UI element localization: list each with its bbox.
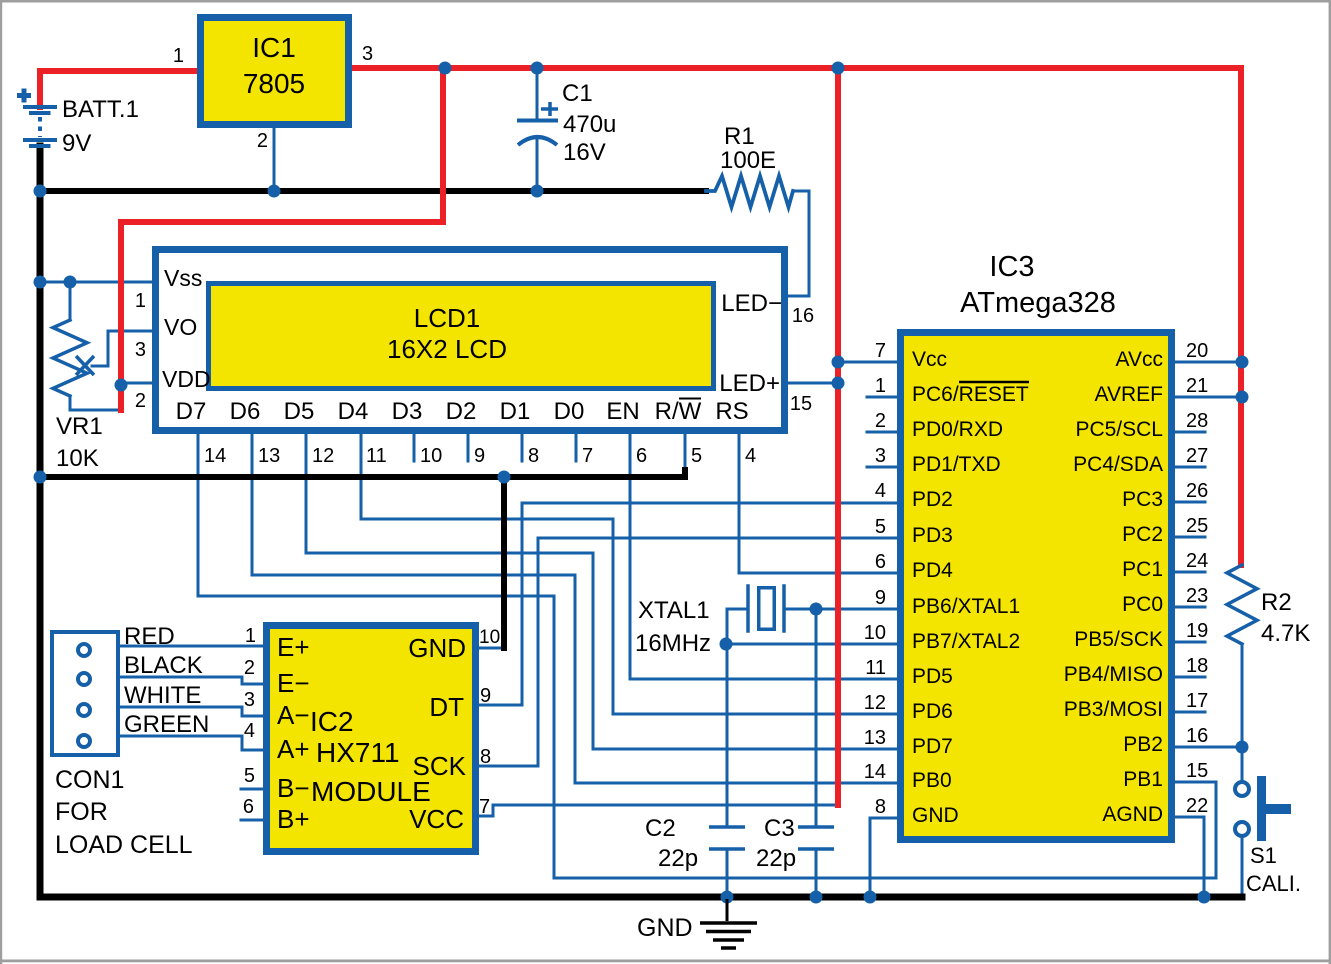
junction ground at battery [34, 185, 47, 198]
svg-text:S1: S1 [1250, 843, 1277, 868]
crystal XTAL1 right plate [782, 586, 786, 631]
wire CON1 BLACK to HX711 E- [120, 677, 264, 684]
wire ATmega PD0 pin 2 stub [867, 431, 897, 434]
svg-text:LOAD CELL: LOAD CELL [55, 831, 193, 859]
svg-text:2: 2 [244, 657, 255, 679]
svg-text:1: 1 [135, 290, 146, 312]
svg-text:24: 24 [1186, 550, 1208, 572]
svg-text:17: 17 [1186, 690, 1208, 712]
wire LCD D4 pin 11 to ATmega PD6 [361, 433, 897, 714]
wire ground left rail and bottom rail (black) [40, 146, 1242, 897]
svg-text:3: 3 [135, 339, 146, 361]
svg-text:7: 7 [875, 340, 886, 362]
svg-text:8: 8 [875, 796, 886, 818]
svg-text:BATT.1: BATT.1 [62, 96, 139, 123]
wire R2 bottom lead [1241, 644, 1244, 747]
wire VR1 bottom lead to 5V [70, 396, 121, 410]
wire ground to LCD R/W pin 5 (black) [40, 470, 685, 477]
svg-text:4: 4 [244, 720, 255, 742]
junction ground at C2 [721, 891, 734, 904]
svg-text:10: 10 [420, 445, 442, 467]
wire ATmega PB2 pin 16 to R2/S1 [1176, 746, 1242, 749]
CON1 circle 4 [78, 735, 90, 747]
battery BATT.1 dotted middle [38, 117, 42, 137]
wire LCD D1 pin 8 stub [521, 433, 524, 461]
svg-text:PD3: PD3 [912, 524, 953, 547]
svg-text:E−: E− [277, 668, 310, 698]
svg-text:E+: E+ [277, 632, 310, 662]
svg-text:18: 18 [1186, 655, 1208, 677]
junction 5V at LCD VDD [115, 379, 128, 392]
svg-text:A−: A− [277, 700, 310, 730]
svg-text:GND: GND [637, 914, 693, 942]
svg-text:7: 7 [582, 445, 593, 467]
svg-text:CALI.: CALI. [1246, 871, 1301, 896]
svg-text:6: 6 [636, 445, 647, 467]
switch S1 actuator [1257, 776, 1291, 841]
svg-text:R/W: R/W [655, 398, 702, 425]
junction crystal right / C3 [810, 603, 823, 616]
potentiometer VR1 wiper arrow [76, 356, 94, 375]
wire ATmega AVREF pin 21 to 5V [1176, 396, 1242, 399]
svg-text:LED+: LED+ [719, 370, 780, 397]
svg-text:1: 1 [875, 375, 886, 397]
svg-text:D7: D7 [176, 398, 207, 425]
svg-text:AVcc: AVcc [1116, 348, 1163, 371]
wire 5V branch down to LCD VDD (red) [121, 68, 443, 410]
svg-text:C2: C2 [645, 815, 676, 842]
wire ATmega GND pin 8 to ground [870, 818, 897, 897]
svg-text:8: 8 [480, 746, 491, 768]
svg-text:15: 15 [790, 393, 812, 415]
wire HX711 B+ pin 6 stub [241, 819, 264, 822]
svg-text:4: 4 [875, 480, 886, 502]
module IC2 HX711 body [267, 626, 476, 852]
svg-text:PB4/MISO: PB4/MISO [1064, 663, 1163, 686]
svg-text:VDD: VDD [162, 366, 211, 392]
junction ground at ATmega AGND [1198, 891, 1211, 904]
svg-text:6: 6 [875, 551, 886, 573]
potentiometer VR1 zigzag [53, 320, 87, 396]
wire HX711 VCC pin 7 to 5V [479, 805, 838, 816]
svg-text:20: 20 [1186, 340, 1208, 362]
svg-text:PC0: PC0 [1122, 593, 1163, 616]
svg-text:ATmega328: ATmega328 [960, 287, 1116, 319]
svg-text:26: 26 [1186, 480, 1208, 502]
svg-text:4: 4 [745, 445, 756, 467]
wire CON1 GREEN to HX711 A+ [120, 736, 264, 750]
crystal XTAL1 body [759, 588, 775, 630]
svg-text:25: 25 [1186, 515, 1208, 537]
wire LCD D3 pin 10 stub [413, 433, 416, 461]
svg-text:VCC: VCC [409, 804, 464, 834]
svg-text:16X2 LCD: 16X2 LCD [387, 334, 507, 364]
svg-text:16MHz: 16MHz [635, 630, 711, 657]
junction ground at C3 [810, 891, 823, 904]
svg-text:D6: D6 [230, 398, 261, 425]
wire 5V vertical to HX711 VCC (red) [835, 68, 841, 805]
battery BATT.1 positive plate [25, 105, 55, 109]
svg-text:22: 22 [1186, 795, 1208, 817]
wire ATmega PC0 pin 23 stub [1176, 606, 1205, 609]
IC3 pin label PC6/RESET [912, 382, 1029, 406]
wire VR1 top lead [69, 282, 72, 320]
svg-text:B+: B+ [277, 804, 310, 834]
svg-text:IC3: IC3 [989, 251, 1034, 283]
junction ground at R/W row [34, 471, 47, 484]
junction ground at IC1 pin 2 [268, 185, 281, 198]
svg-text:IC2: IC2 [310, 706, 354, 737]
page border right [1329, 0, 1331, 964]
switch S1 bottom contact [1235, 822, 1249, 836]
svg-text:BLACK: BLACK [124, 652, 203, 679]
junction 5V at HX711 VCC branch [832, 62, 845, 75]
svg-text:14: 14 [864, 761, 886, 783]
svg-text:5: 5 [244, 765, 255, 787]
svg-text:VR1: VR1 [56, 413, 103, 440]
svg-text:PD0/RXD: PD0/RXD [912, 418, 1003, 441]
wire XTAL1 right terminal to ATmega PB6 pin 9 [784, 608, 897, 611]
wire C3 top lead [815, 609, 818, 827]
junction VR1 top / Vss wire [64, 276, 77, 289]
svg-text:PB6/XTAL1: PB6/XTAL1 [912, 595, 1020, 618]
junction ground at C1 [531, 185, 544, 198]
wire ATmega PB3 pin 17 stub [1176, 711, 1205, 714]
junction 5V at LED+ [832, 377, 845, 390]
wire ATmega PC4 pin 27 stub [1176, 466, 1205, 469]
svg-text:8: 8 [528, 445, 539, 467]
wire ATmega PC3 pin 26 stub [1176, 501, 1205, 504]
svg-text:1: 1 [173, 45, 184, 67]
svg-text:15: 15 [1186, 760, 1208, 782]
svg-text:B−: B− [277, 773, 310, 803]
svg-text:GND: GND [912, 804, 959, 827]
LCD pin label R/W [655, 398, 702, 425]
svg-text:AVREF: AVREF [1095, 383, 1163, 406]
svg-text:D0: D0 [554, 398, 585, 425]
CON1 circle 2 [78, 673, 90, 685]
svg-text:PC5/SCL: PC5/SCL [1075, 418, 1163, 441]
svg-text:11: 11 [865, 657, 886, 679]
wire S1 top lead [1241, 747, 1244, 781]
wire ATmega Vcc pin 7 to 5V [838, 361, 897, 364]
wire LCD Vss pin 1 to ground rail [40, 281, 152, 284]
CON1 circle 1 [78, 644, 90, 656]
wire LCD D6 pin 13 to ATmega PB0 [252, 433, 897, 783]
svg-text:7805: 7805 [243, 68, 305, 99]
wire ATmega PC5 pin 28 stub [1176, 431, 1205, 434]
junction ground at ATmega GND [864, 891, 877, 904]
svg-text:PD6: PD6 [912, 700, 953, 723]
wire 9V from BATT.1 to IC1 pin 1 (red) [40, 71, 197, 107]
wire LCD VO pin 3 to VR1 wiper [92, 331, 152, 366]
svg-text:PB0: PB0 [912, 769, 952, 792]
svg-text:LCD1: LCD1 [414, 303, 480, 333]
wire LCD D7 pin 14 to ATmega PB1 (via bottom route) [198, 433, 1216, 878]
wire LCD D2 pin 9 stub [467, 433, 470, 461]
svg-text:10K: 10K [56, 445, 99, 472]
svg-text:D2: D2 [446, 398, 477, 425]
svg-text:Vcc: Vcc [912, 348, 947, 371]
svg-text:PC6/RESET: PC6/RESET [912, 383, 1029, 406]
svg-text:LED−: LED− [721, 290, 782, 317]
svg-text:RS: RS [715, 398, 748, 425]
svg-text:PB7/XTAL2: PB7/XTAL2 [912, 630, 1020, 653]
wire C1 top lead [536, 68, 539, 119]
svg-text:IC1: IC1 [252, 32, 296, 63]
page border top [0, 0, 1331, 3]
wire LCD D0 pin 7 stub [575, 433, 578, 461]
svg-text:D4: D4 [338, 398, 369, 425]
wire ATmega PB4 pin 18 stub [1176, 676, 1205, 679]
svg-text:D5: D5 [284, 398, 315, 425]
junction ground at LCD Vss row [34, 276, 47, 289]
wire HX711 DT pin 9 to ATmega PD2 [479, 503, 897, 705]
wire HX711 B- pin 5 stub [241, 788, 264, 791]
svg-text:100E: 100E [720, 147, 776, 174]
wire C1 bottom lead [536, 140, 539, 191]
svg-text:PB5/SCK: PB5/SCK [1074, 628, 1163, 651]
wire ATmega PB5 pin 19 stub [1176, 641, 1205, 644]
svg-text:22p: 22p [658, 845, 698, 872]
svg-text:5: 5 [875, 516, 886, 538]
capacitor C1 plus sign [541, 102, 558, 116]
svg-text:PD2: PD2 [912, 488, 953, 511]
svg-text:R2: R2 [1261, 589, 1292, 616]
svg-text:2: 2 [257, 130, 268, 152]
svg-text:VO: VO [164, 314, 197, 340]
connector CON1 body [52, 632, 118, 755]
wire ATmega PC6/RESET pin 1 stub [867, 396, 897, 399]
junction ground drop to HX711 [498, 471, 511, 484]
svg-text:22p: 22p [756, 845, 796, 872]
microcontroller IC3 ATmega328 body [901, 333, 1172, 840]
crystal XTAL1 left plate [746, 586, 750, 631]
svg-text:13: 13 [258, 445, 280, 467]
svg-text:19: 19 [1186, 620, 1208, 642]
svg-text:3: 3 [875, 445, 886, 467]
svg-text:13: 13 [864, 727, 886, 749]
wire CON1 WHITE to HX711 A- [120, 707, 264, 716]
wire LCD LED+ pin 15 to 5V [788, 382, 838, 385]
svg-text:PC3: PC3 [1122, 488, 1163, 511]
svg-text:PC1: PC1 [1122, 558, 1163, 581]
svg-text:HX711: HX711 [316, 737, 400, 768]
junction 5V at LCD-VDD branch [439, 62, 452, 75]
svg-text:PB3/MOSI: PB3/MOSI [1064, 698, 1163, 721]
svg-text:DT: DT [429, 692, 464, 722]
svg-text:RED: RED [124, 623, 175, 650]
svg-text:3: 3 [362, 43, 373, 65]
display LCD1 screen [209, 284, 714, 389]
capacitor C3 plates [798, 827, 834, 849]
svg-text:Vss: Vss [164, 265, 202, 291]
wire HX711 SCK pin 8 to ATmega PD3 [479, 538, 897, 766]
wire ground drop to HX711 GND (black) [501, 477, 507, 648]
capacitor C1 curved plate [518, 137, 557, 145]
wire ATmega AGND pin 22 to ground [1176, 817, 1204, 897]
svg-text:A+: A+ [277, 734, 310, 764]
svg-text:5: 5 [691, 445, 702, 467]
wire LCD EN pin 6 to ATmega PD5 [630, 433, 897, 679]
svg-text:14: 14 [204, 445, 226, 467]
wire ATmega PB7 pin 10 to crystal/C2 node [726, 643, 897, 646]
svg-text:9: 9 [480, 685, 491, 707]
wire ATmega PD1 pin 3 stub [867, 466, 897, 469]
wire ATmega PC2 pin 25 stub [1176, 536, 1205, 539]
wire HX711 GND pin 10 stub [479, 647, 502, 650]
svg-text:10: 10 [864, 622, 886, 644]
svg-text:9: 9 [474, 445, 485, 467]
junction 5V at C1 [531, 62, 544, 75]
svg-text:11: 11 [366, 445, 387, 467]
switch S1 top contact [1235, 782, 1249, 796]
svg-text:10: 10 [479, 627, 500, 648]
svg-text:7: 7 [479, 796, 490, 818]
battery BATT.1 short plate 2 [31, 144, 49, 148]
svg-text:D3: D3 [392, 398, 423, 425]
svg-text:C3: C3 [764, 815, 795, 842]
wire R1 to LCD LED- pin 16 [788, 191, 809, 296]
svg-text:R1: R1 [724, 123, 755, 150]
wire ground from battery to C1/R1 row (black) [40, 188, 706, 194]
junction PB2 / R2 / S1 [1236, 741, 1249, 754]
svg-text:16: 16 [1186, 725, 1208, 747]
svg-text:PD1/TXD: PD1/TXD [912, 453, 1001, 476]
svg-text:AGND: AGND [1102, 803, 1163, 826]
battery BATT.1 long plate 2 [25, 138, 55, 142]
page border left [0, 0, 2, 964]
svg-text:MODULE: MODULE [311, 776, 431, 807]
svg-text:1: 1 [245, 625, 256, 647]
svg-text:PD5: PD5 [912, 665, 953, 688]
svg-text:9V: 9V [62, 130, 91, 157]
svg-text:CON1: CON1 [55, 766, 124, 794]
page border bottom [0, 960, 1331, 963]
svg-text:GREEN: GREEN [124, 711, 209, 738]
svg-text:PB2: PB2 [1123, 733, 1163, 756]
wire ATmega AVcc pin 20 to 5V [1176, 361, 1242, 364]
svg-text:9: 9 [875, 587, 886, 609]
wire LCD R/W pin 5 stub [684, 433, 687, 471]
svg-text:6: 6 [243, 796, 254, 818]
svg-text:2: 2 [135, 390, 146, 412]
svg-text:PC4/SDA: PC4/SDA [1073, 453, 1163, 476]
battery BATT.1 short plate 1 [31, 111, 49, 115]
wire S1 bottom lead to ground [1241, 837, 1244, 897]
svg-text:16V: 16V [563, 139, 606, 166]
battery plus sign [17, 89, 31, 103]
svg-text:23: 23 [1186, 585, 1208, 607]
wire 5V rail from IC1 pin 3 across top (red) [352, 68, 1241, 565]
wire LCD D5 pin 12 to ATmega PD7 [306, 433, 897, 749]
svg-text:C1: C1 [562, 80, 593, 107]
wire XTAL1 left terminal to C2 [727, 609, 748, 827]
svg-text:28: 28 [1186, 410, 1208, 432]
junction 5V at ATmega Vcc [832, 356, 845, 369]
svg-text:12: 12 [312, 445, 334, 467]
resistor R1 zigzag [706, 176, 793, 207]
wire IC1 pin 2 to ground [273, 128, 276, 191]
svg-text:PD7: PD7 [912, 735, 953, 758]
display LCD1 outer body [156, 250, 785, 431]
wire ATmega PC1 pin 24 stub [1176, 571, 1205, 574]
svg-text:EN: EN [606, 398, 639, 425]
svg-text:D1: D1 [500, 398, 531, 425]
svg-text:4.7K: 4.7K [1261, 620, 1310, 647]
wire C3 bottom lead to ground [815, 849, 818, 897]
wire LCD RS pin 4 to ATmega PD4 [739, 433, 897, 573]
resistor R2 zigzag [1227, 565, 1257, 644]
svg-text:WHITE: WHITE [124, 682, 201, 709]
svg-text:3: 3 [244, 689, 255, 711]
svg-text:12: 12 [864, 692, 886, 714]
capacitor C2 plates [709, 827, 745, 849]
svg-text:2: 2 [875, 410, 886, 432]
svg-text:GND: GND [408, 633, 466, 663]
wire LCD VDD pin 2 to 5V [121, 382, 152, 385]
svg-text:PC2: PC2 [1122, 523, 1163, 546]
regulator IC1 7805 body [201, 18, 349, 125]
junction 5V at AVREF [1236, 391, 1249, 404]
svg-text:PD4: PD4 [912, 559, 953, 582]
svg-text:27: 27 [1186, 445, 1208, 467]
svg-text:FOR: FOR [55, 798, 108, 826]
capacitor C1 top plate [519, 119, 556, 123]
junction crystal left / PB7 [720, 638, 733, 651]
ground symbol [700, 899, 757, 948]
svg-text:470u: 470u [563, 111, 616, 138]
wire CON1 RED to HX711 E+ [120, 645, 264, 648]
svg-text:21: 21 [1186, 375, 1208, 397]
junction 5V at AVcc [1236, 356, 1249, 369]
svg-text:XTAL1: XTAL1 [638, 597, 710, 624]
svg-text:16: 16 [792, 305, 814, 327]
wire C2 bottom lead to ground [726, 849, 729, 897]
CON1 circle 3 [78, 704, 90, 716]
svg-text:PB1: PB1 [1123, 768, 1163, 791]
